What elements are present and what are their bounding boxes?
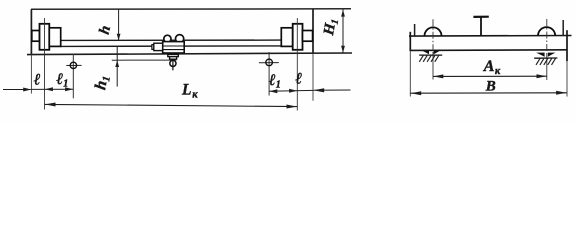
wire: left vertical edge (30, 9, 32, 54)
hook block upper bar (168, 54, 179, 56)
end beam bottom line (410, 49, 568, 52)
dimension l / l1 left: tail arrow into left edge (3, 88, 31, 92)
girder cross-section: web stem (480, 18, 482, 36)
left hook axis extension line (72, 54, 74, 99)
left hook circle (70, 62, 76, 68)
extension line: right edge below bottom (312, 53, 314, 100)
dimension Ak: line with arrows between wheel axes (433, 74, 547, 78)
right hook circle (266, 59, 273, 66)
left wheel axis / extension line (44, 18, 46, 110)
left rail line (419, 54, 442, 56)
right rail hatching (536, 58, 556, 65)
dimension h1: vertical line with up arrow at hook level (115, 46, 119, 86)
right hook horizontal tick (259, 62, 279, 64)
right rail line (534, 57, 557, 59)
end beam right edge (566, 30, 568, 61)
left wheel-rail contact wedges (422, 51, 440, 55)
dimension line l1 and l right (269, 89, 313, 93)
trolley wheel right (176, 35, 184, 43)
right wheel axis (dash-dot) (546, 19, 548, 80)
hook block lower bar (170, 57, 177, 60)
wire: right vertical edge (312, 9, 314, 53)
label H1 (321, 17, 341, 37)
extension line: beam left edge down (409, 51, 411, 97)
extension line: beam right edge down (566, 61, 568, 96)
svg-text:В: В (485, 79, 496, 95)
extension line: left edge below bottom (30, 55, 32, 94)
tail arrow into right edge (313, 88, 350, 92)
svg-text:h1: h1 (92, 74, 113, 91)
left wheel arc (425, 27, 442, 35)
hook suspension vertical line (172, 59, 174, 70)
left buffer post (414, 24, 416, 36)
right wheel-rail contact wedges (536, 53, 555, 57)
right end truck: gearbox rect (281, 28, 292, 47)
wire: bottom line (rail head level, extended right) (27, 53, 352, 55)
left rail hatching (419, 55, 439, 61)
svg-text:Lк: Lк (181, 81, 198, 100)
right end truck: wheel rect (293, 24, 303, 50)
girder cross-section: top flange (473, 16, 488, 18)
svg-text:Aк: Aк (483, 58, 501, 77)
svg-text:ℓ1: ℓ1 (55, 71, 68, 90)
wire: girder bottom line (61, 45, 282, 48)
hook level line (h1 reference) (112, 59, 177, 61)
end beam top line (409, 35, 572, 38)
dimension H1: vertical line with arrows (341, 10, 345, 53)
center hook circle (170, 60, 176, 66)
left end truck: wheel rect (40, 24, 50, 50)
svg-text:H1: H1 (321, 17, 341, 37)
end beam left edge (409, 32, 411, 51)
dimension line l and l1 left (31, 87, 73, 91)
trolley wheel left (164, 35, 171, 42)
trolley hoist body (163, 42, 185, 53)
trolley body internal lines (163, 46, 184, 50)
left wheel axis (dash-dot) (432, 19, 434, 79)
left end truck: gearbox rect (49, 28, 60, 47)
dimension h: vertical line with arrows (117, 9, 121, 40)
svg-text:ℓ: ℓ (294, 70, 302, 87)
wire: top line (crane highest point, extended right for H1) (31, 8, 351, 11)
wire: girder top line (61, 39, 282, 41)
right wheel arc (538, 27, 555, 36)
svg-text:ℓ: ℓ (33, 72, 41, 89)
right end truck: axle cap rect (303, 31, 313, 42)
right hook axis extension line (268, 52, 270, 96)
trolley motor rect (154, 43, 163, 50)
svg-text:h: h (97, 24, 114, 36)
label h1 (92, 74, 113, 91)
trolley motor cap (152, 45, 154, 50)
svg-text:ℓ1: ℓ1 (268, 72, 281, 91)
left hook horizontal tick (66, 64, 81, 66)
left end truck: axle cap rect (32, 31, 40, 42)
dimension Lk: span line with arrows (45, 103, 298, 109)
dimension B: line with arrows full width (410, 91, 567, 95)
right wheel axis / extension line (296, 18, 298, 111)
right buffer post (562, 20, 564, 36)
